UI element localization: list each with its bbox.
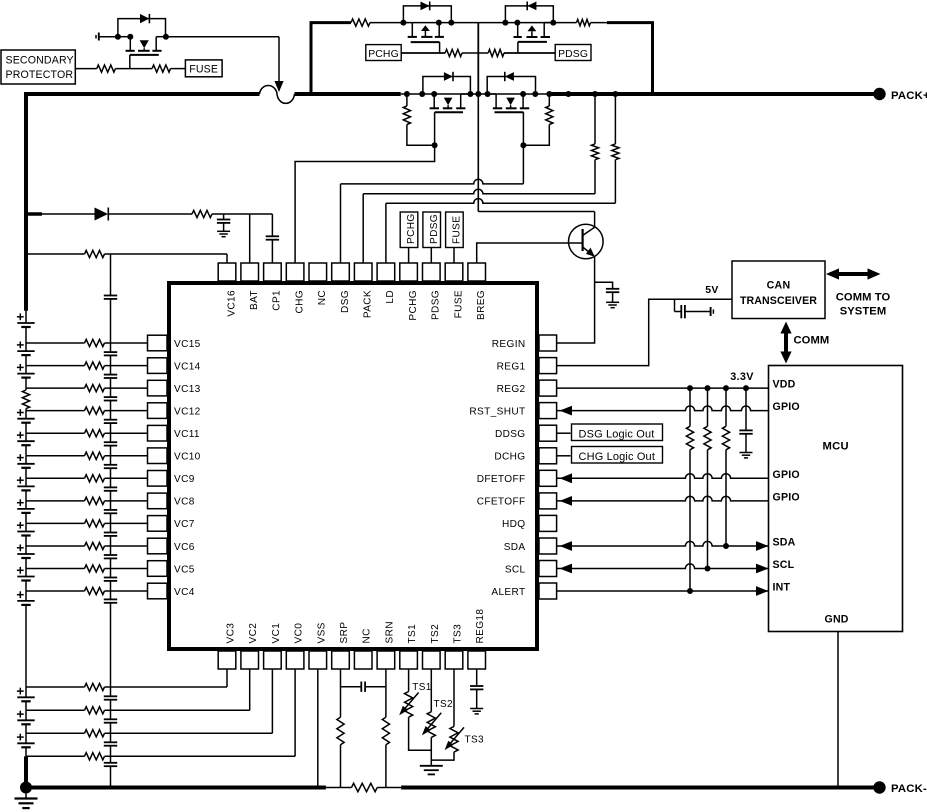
pin box right RST_SHUT — [539, 403, 557, 419]
wire cell tap VC1 — [26, 732, 85, 734]
svg-text:VC9: VC9 — [174, 474, 195, 485]
svg-text:VC12: VC12 — [174, 406, 201, 417]
wire SCL bus — [560, 564, 573, 574]
wire PACK- bus left — [26, 786, 326, 790]
wire TS1 to common — [409, 717, 432, 750]
wire SRP sense — [340, 669, 342, 717]
battery cell B — [25, 501, 27, 509]
capacitor C cell filter — [104, 351, 117, 353]
resistor pull-up R on SDA — [725, 388, 727, 426]
resistor VC2 filter R — [85, 707, 105, 714]
svg-text:GPIO: GPIO — [773, 491, 800, 503]
pin box bottom VC0 — [286, 651, 304, 669]
pin box top BREG — [468, 263, 486, 281]
wire DFETOFF from MCU GPIO — [560, 473, 573, 483]
pin box bottom NC — [354, 651, 372, 669]
battery cell B — [25, 591, 27, 601]
pin box top PDSG — [423, 263, 441, 281]
pin box bottom VC2 — [241, 651, 259, 669]
pin box bottom TS2 — [423, 651, 441, 669]
node CHG FET drain — [467, 91, 473, 97]
wire cell tap VC3 — [26, 686, 85, 688]
svg-text:5V: 5V — [705, 285, 718, 296]
node DSG gate — [520, 142, 526, 148]
wire DSG gate to DSG pin — [522, 145, 524, 184]
svg-text:HDQ: HDQ — [502, 519, 525, 530]
svg-text:BAT: BAT — [249, 290, 260, 310]
wire MCU GND to PACK- — [837, 632, 839, 788]
DSG FET body diode D — [505, 72, 514, 81]
svg-text:VC15: VC15 — [174, 339, 201, 350]
node fuse FET drain — [163, 34, 169, 40]
thermistor TS3 — [453, 669, 455, 726]
pin box top LD — [377, 263, 395, 281]
svg-text:PROTECTOR: PROTECTOR — [6, 69, 74, 81]
wire ALERT to INT — [557, 590, 769, 592]
wire to FUSE box — [171, 68, 186, 70]
svg-text:TS3: TS3 — [453, 624, 464, 644]
wire TS2 to ground — [430, 737, 432, 765]
node bus at CHG FET — [404, 91, 410, 97]
CHG FET gate — [435, 111, 463, 113]
svg-text:PCHG: PCHG — [406, 213, 417, 244]
wire center column to transistor collector — [478, 211, 594, 213]
ground at 3.3V capacitor — [740, 452, 753, 454]
wire bus thin segment across CHG/DSG FETs — [401, 93, 550, 95]
capacitor C sense filter SRP-SRN — [341, 686, 362, 688]
node PCHG FET source — [400, 20, 406, 26]
svg-text:REG18: REG18 — [475, 609, 486, 644]
wire cell tap VC11 — [26, 432, 85, 434]
IC U1 battery monitor body — [169, 283, 537, 649]
pin box right ALERT — [539, 583, 557, 599]
svg-text:VC16: VC16 — [226, 290, 237, 317]
svg-text:DSG Logic Out: DSG Logic Out — [579, 429, 655, 441]
label box CHG Logic Out — [572, 447, 663, 464]
capacitor C cell filter — [104, 598, 117, 600]
pin box left VC5 — [148, 561, 168, 577]
wire VSS to PACK- bus — [317, 669, 319, 788]
resistor VC5 filter R — [85, 565, 105, 572]
capacitor C REG18 — [476, 669, 478, 686]
pin box top BAT — [241, 263, 259, 281]
wire RST_SHUT from MCU GPIO — [560, 406, 573, 416]
wire VC16 top line — [26, 253, 85, 255]
resistor VC0 filter R — [85, 753, 105, 760]
wire cell tap VC2 — [26, 709, 85, 711]
pin box right REG1 — [539, 358, 557, 374]
resistor VC4 filter R — [85, 587, 105, 594]
label box PCHG — [366, 45, 401, 61]
node PACK+ terminal — [873, 88, 885, 100]
wire cell tap VC9 — [26, 477, 85, 479]
wire precharge path left leg — [311, 23, 351, 94]
pin box bottom SRP — [332, 651, 350, 669]
resistor secondary protector R — [97, 65, 116, 72]
wire shunt lead left — [326, 787, 352, 789]
svg-text:CP1: CP1 — [272, 290, 283, 311]
resistor predischarge right R — [577, 19, 591, 25]
svg-text:TS1: TS1 — [412, 682, 431, 693]
resistor SRN filter R — [382, 717, 389, 745]
pin box right SCL — [539, 561, 557, 577]
pin box bottom VSS — [309, 651, 327, 669]
wire PACK sense to PACK pin — [594, 160, 596, 194]
wire CFETOFF from MCU GPIO — [560, 496, 573, 506]
pin box bottom VC1 — [264, 651, 282, 669]
svg-text:DSG: DSG — [340, 290, 351, 313]
wire PCHG box to gate resistor — [401, 52, 445, 54]
ground main — [25, 788, 27, 799]
pin box left VC12 — [148, 403, 168, 419]
svg-text:PDSG: PDSG — [429, 214, 440, 244]
secondary protector box — [1, 50, 75, 84]
wire to VC0 pin — [294, 669, 296, 756]
capacitor C BAT to ground — [223, 214, 225, 220]
svg-text:VC2: VC2 — [248, 623, 259, 644]
pin box left VC6 — [148, 538, 168, 554]
pin box bottom TS1 — [400, 651, 418, 669]
svg-text:FUSE: FUSE — [452, 216, 463, 244]
capacitor C 3.3V decoupling — [745, 388, 747, 430]
svg-text:ALERT: ALERT — [491, 587, 525, 598]
svg-text:COMM: COMM — [794, 335, 830, 347]
resistor VC8 filter R — [85, 497, 105, 504]
fuse FET body diode D — [140, 14, 149, 23]
fuse FET gate — [130, 54, 159, 56]
wire DDSG to logic box — [557, 432, 571, 434]
resistor PCHG gate R — [445, 49, 462, 56]
wire to BAT pin — [212, 213, 272, 215]
wire PDSG box to pin — [430, 248, 432, 264]
PDSG FET Q6 body diode loop — [505, 6, 553, 23]
svg-text:NC: NC — [317, 290, 328, 305]
svg-text:VC10: VC10 — [174, 452, 201, 463]
pin box top CP1 — [264, 263, 282, 281]
node bus at LD resistor — [612, 91, 618, 97]
battery cell B — [25, 311, 27, 323]
pin box left VC15 — [148, 335, 168, 351]
capacitor C cell filter — [104, 695, 117, 697]
battery cell B — [25, 456, 27, 464]
transistor Q3 NPN — [569, 224, 604, 259]
node PACK- terminal — [873, 781, 885, 793]
pin box bottom SRN — [377, 651, 395, 669]
svg-text:GND: GND — [825, 614, 849, 626]
thermistor TS2 — [430, 669, 432, 712]
resistor SRP filter R — [337, 717, 344, 745]
label box PDSG (pin) — [423, 212, 441, 248]
resistor shunt R_SNS — [352, 783, 378, 791]
capacitor C cell filter — [104, 419, 117, 421]
capacitor C cell filter — [104, 464, 117, 466]
PCHG FET Q5 body diode loop — [403, 6, 451, 23]
pin box left VC13 — [148, 380, 168, 396]
svg-text:REGIN: REGIN — [492, 339, 526, 350]
resistor VC12 filter R — [85, 407, 105, 414]
capacitor C cell filter — [104, 554, 117, 556]
capacitor C CP1 series — [271, 214, 273, 236]
pin box top PCHG — [400, 263, 418, 281]
wire PCHG box to pin — [408, 248, 410, 264]
svg-text:VC13: VC13 — [174, 384, 201, 395]
wire cell tap VC15 — [26, 342, 85, 344]
wire to VC3 pin — [226, 669, 228, 687]
fuse FET Q4 channel — [129, 37, 131, 51]
PDSG FET Q6 channel — [517, 23, 519, 37]
capacitor C cell filter — [104, 532, 117, 534]
resistor VC1 filter R — [85, 730, 105, 737]
label box PCHG (pin) — [400, 212, 418, 248]
pin box top FUSE — [445, 263, 463, 281]
fuse FET Q4 source stub terminal — [95, 35, 97, 39]
CAN transceiver U3 box — [732, 261, 825, 319]
wire cell tap VC4 — [26, 590, 85, 592]
svg-text:TS2: TS2 — [434, 699, 453, 710]
wire top path mid — [451, 22, 505, 24]
wire PACK+ bus middle segment — [295, 92, 401, 96]
node bus at PACK sense resistor — [592, 91, 598, 97]
wire cell tap VC14 — [26, 365, 85, 367]
svg-text:SCL: SCL — [505, 564, 526, 575]
pin box top VC16 — [218, 263, 236, 281]
wire PACK- bus right — [401, 786, 879, 790]
svg-text:PCHG: PCHG — [368, 49, 399, 60]
svg-text:SRN: SRN — [384, 621, 395, 643]
wire to fuse FET gate — [115, 68, 152, 70]
wire BAT/CP1 filter line — [26, 212, 42, 216]
svg-text:SDA: SDA — [504, 542, 526, 553]
resistor precharge left R — [351, 19, 370, 26]
wire differential filter rail — [110, 254, 112, 296]
pin box bottom REG18 — [468, 651, 486, 669]
resistor PACK sense R — [594, 94, 596, 144]
pin box left VC7 — [148, 516, 168, 532]
svg-text:3.3V: 3.3V — [730, 371, 754, 383]
resistor VC13 filter R — [85, 385, 105, 392]
capacitor C cell filter — [104, 486, 117, 488]
node CHG gate — [432, 142, 438, 148]
svg-text:CHG: CHG — [294, 290, 305, 313]
svg-text:RST_SHUT: RST_SHUT — [469, 406, 525, 417]
svg-text:REG2: REG2 — [497, 384, 526, 395]
svg-text:VC0: VC0 — [294, 623, 305, 644]
svg-text:DDSG: DDSG — [495, 429, 526, 440]
wire top path right FET span — [505, 22, 553, 24]
chemical fuse symbol in PACK+ rail — [260, 86, 295, 104]
pin box right REGIN — [539, 335, 557, 351]
arrow into chemical fuse — [274, 81, 283, 92]
node PDSG FET drain — [550, 20, 556, 26]
svg-text:GPIO: GPIO — [773, 401, 800, 413]
svg-text:VC5: VC5 — [174, 564, 195, 575]
pin box left VC10 — [148, 448, 168, 464]
wire cell tap VC7 — [26, 522, 85, 524]
resistor LD R — [614, 94, 616, 144]
double arrow COMM CAN to MCU — [784, 330, 788, 355]
resistor DSG gate-source pulldown R — [548, 94, 550, 106]
wire TS3 to common — [431, 752, 454, 760]
svg-text:SDA: SDA — [773, 537, 796, 549]
CHG FET Q1 body diode loop — [423, 77, 471, 95]
svg-text:TS3: TS3 — [465, 735, 484, 746]
wire BREG pin to transistor base — [477, 243, 583, 263]
wire cell tap VC5 — [26, 568, 85, 570]
svg-text:CAN: CAN — [767, 280, 791, 292]
svg-text:DFETOFF: DFETOFF — [477, 474, 526, 485]
svg-text:VC4: VC4 — [174, 587, 195, 598]
ground at REG18 capacitor — [470, 708, 483, 710]
wire SDA bus — [560, 541, 573, 551]
node fuse FET source — [115, 34, 121, 40]
wire battery stack top thick — [24, 94, 28, 311]
svg-text:PDSG: PDSG — [431, 290, 442, 320]
svg-text:VDD: VDD — [773, 379, 796, 391]
capacitor C cell filter — [104, 762, 117, 764]
wire cell tap VC12 — [26, 410, 85, 412]
thermistor TS1 — [408, 669, 410, 692]
battery cell B — [25, 433, 27, 441]
battery cell B — [25, 478, 27, 486]
svg-text:BREG: BREG — [476, 290, 487, 320]
pin box top NC — [309, 263, 327, 281]
pin box right HDQ — [539, 515, 557, 531]
PCHG FET body diode D — [421, 2, 430, 11]
svg-text:CFETOFF: CFETOFF — [477, 497, 526, 508]
PCHG FET Q5 channel — [411, 23, 413, 37]
resistor VC6 filter R — [85, 542, 105, 549]
svg-text:PACK-: PACK- — [891, 783, 927, 795]
pin box right DFETOFF — [539, 470, 557, 486]
wire to VC1 pin — [271, 669, 273, 733]
pin box top CHG — [286, 263, 304, 281]
wire secondary protector to gate — [75, 68, 97, 70]
wire REG1 to 5V — [557, 299, 732, 365]
wire VC16 line to pin — [105, 253, 228, 255]
wire cell tap VC6 — [26, 545, 85, 547]
capacitor C cell filter — [104, 396, 117, 398]
wire top path right — [553, 22, 576, 24]
wire to PDSG FET gate — [504, 52, 555, 54]
node bus at DSG pull resistor — [546, 91, 552, 97]
wire FUSE box to pin — [453, 248, 455, 264]
DSG FET Q2 body diode loop — [487, 77, 535, 95]
pin box left VC8 — [148, 493, 168, 509]
resistor VC11 filter R — [85, 430, 105, 437]
pin box bottom VC3 — [218, 651, 236, 669]
diode D1 to BAT — [95, 208, 109, 221]
pin box right DCHG — [539, 448, 557, 464]
resistor VC9 filter R — [85, 475, 105, 482]
capacitor C cell filter — [104, 509, 117, 511]
svg-text:SYSTEM: SYSTEM — [840, 306, 887, 318]
wire top path left FET span — [403, 22, 451, 24]
svg-text:LD: LD — [385, 290, 396, 304]
pin box right CFETOFF — [539, 493, 557, 509]
capacitor C 5V bypass — [674, 299, 676, 311]
svg-text:PDSG: PDSG — [558, 49, 588, 60]
pin box left VC9 — [148, 471, 168, 487]
resistor PDSG gate R — [488, 49, 504, 56]
capacitor C cell filter — [104, 577, 117, 579]
svg-text:PCHG: PCHG — [408, 290, 419, 321]
wire to PCHG FET — [370, 22, 403, 24]
pin box top PACK — [354, 263, 372, 281]
svg-text:REG1: REG1 — [497, 361, 526, 372]
node bus at DSG FET — [485, 91, 491, 97]
wire REG2 / VDD 3.3V line — [557, 387, 769, 389]
svg-text:VC8: VC8 — [174, 497, 195, 508]
resistor VC16 R — [85, 250, 105, 257]
node PDSG FET source side — [502, 20, 508, 26]
DSG FET Q2 channel — [495, 94, 497, 108]
svg-text:PACK: PACK — [363, 290, 374, 318]
pin box right REG2 — [539, 380, 557, 396]
PDSG FET gate — [518, 41, 547, 43]
label box PDSG — [555, 45, 591, 61]
svg-text:INT: INT — [773, 582, 791, 594]
resistor CHG gate-source pulldown R — [406, 94, 408, 106]
svg-text:VC1: VC1 — [271, 623, 282, 644]
wire predischarge right thick leg — [607, 23, 653, 94]
resistor VC14 filter R — [85, 362, 105, 369]
wire predischarge right — [591, 22, 608, 24]
capacitor C cell filter — [104, 718, 117, 720]
wire cell tap VC13 — [26, 387, 85, 389]
svg-text:VSS: VSS — [316, 622, 327, 643]
svg-text:TS1: TS1 — [407, 624, 418, 644]
battery cell B — [25, 733, 27, 743]
svg-text:SRP: SRP — [339, 622, 350, 644]
CHG FET body diode D — [444, 72, 453, 81]
capacitor C cell filter — [104, 295, 117, 297]
resistor pull-up R on ALERT line — [689, 388, 691, 426]
svg-text:GPIO: GPIO — [773, 469, 800, 481]
pin box right SDA — [539, 538, 557, 554]
wire PACK+ bus top-left corner — [26, 94, 260, 311]
battery cell B — [25, 366, 27, 374]
svg-text:VC3: VC3 — [226, 623, 237, 644]
wire LD to LD pin — [614, 160, 616, 204]
svg-text:NC: NC — [362, 628, 373, 643]
svg-text:COMM TO: COMM TO — [836, 292, 891, 304]
svg-text:PACK+: PACK+ — [891, 90, 927, 102]
MCU U2 box — [769, 366, 903, 632]
DSG FET gate — [495, 111, 524, 113]
svg-text:SCL: SCL — [773, 559, 795, 571]
svg-text:TS2: TS2 — [430, 624, 441, 644]
ground thermistor common — [420, 765, 443, 767]
svg-text:DCHG: DCHG — [494, 452, 525, 463]
wire gate resistors middle — [462, 52, 488, 54]
pin box top DSG — [332, 263, 350, 281]
capacitor C cell filter — [104, 374, 117, 376]
ground at BREG capacitor — [606, 301, 619, 303]
svg-text:VC11: VC11 — [174, 429, 200, 440]
ground at BAT capacitor — [217, 230, 230, 232]
svg-text:TRANSCEIVER: TRANSCEIVER — [740, 295, 817, 307]
label box DSG Logic Out — [572, 424, 663, 441]
svg-text:FUSE: FUSE — [453, 290, 464, 318]
wire battery stack bottom thick — [24, 756, 28, 787]
battery cell B — [25, 710, 27, 720]
node battery negative junction — [20, 782, 32, 794]
wire to VC2 pin — [249, 669, 251, 710]
capacitor C cell filter — [104, 441, 117, 443]
label box FUSE (pin) — [446, 212, 464, 248]
wire shunt lead right — [377, 787, 401, 789]
wire center column from top path to bus and down — [477, 23, 479, 94]
